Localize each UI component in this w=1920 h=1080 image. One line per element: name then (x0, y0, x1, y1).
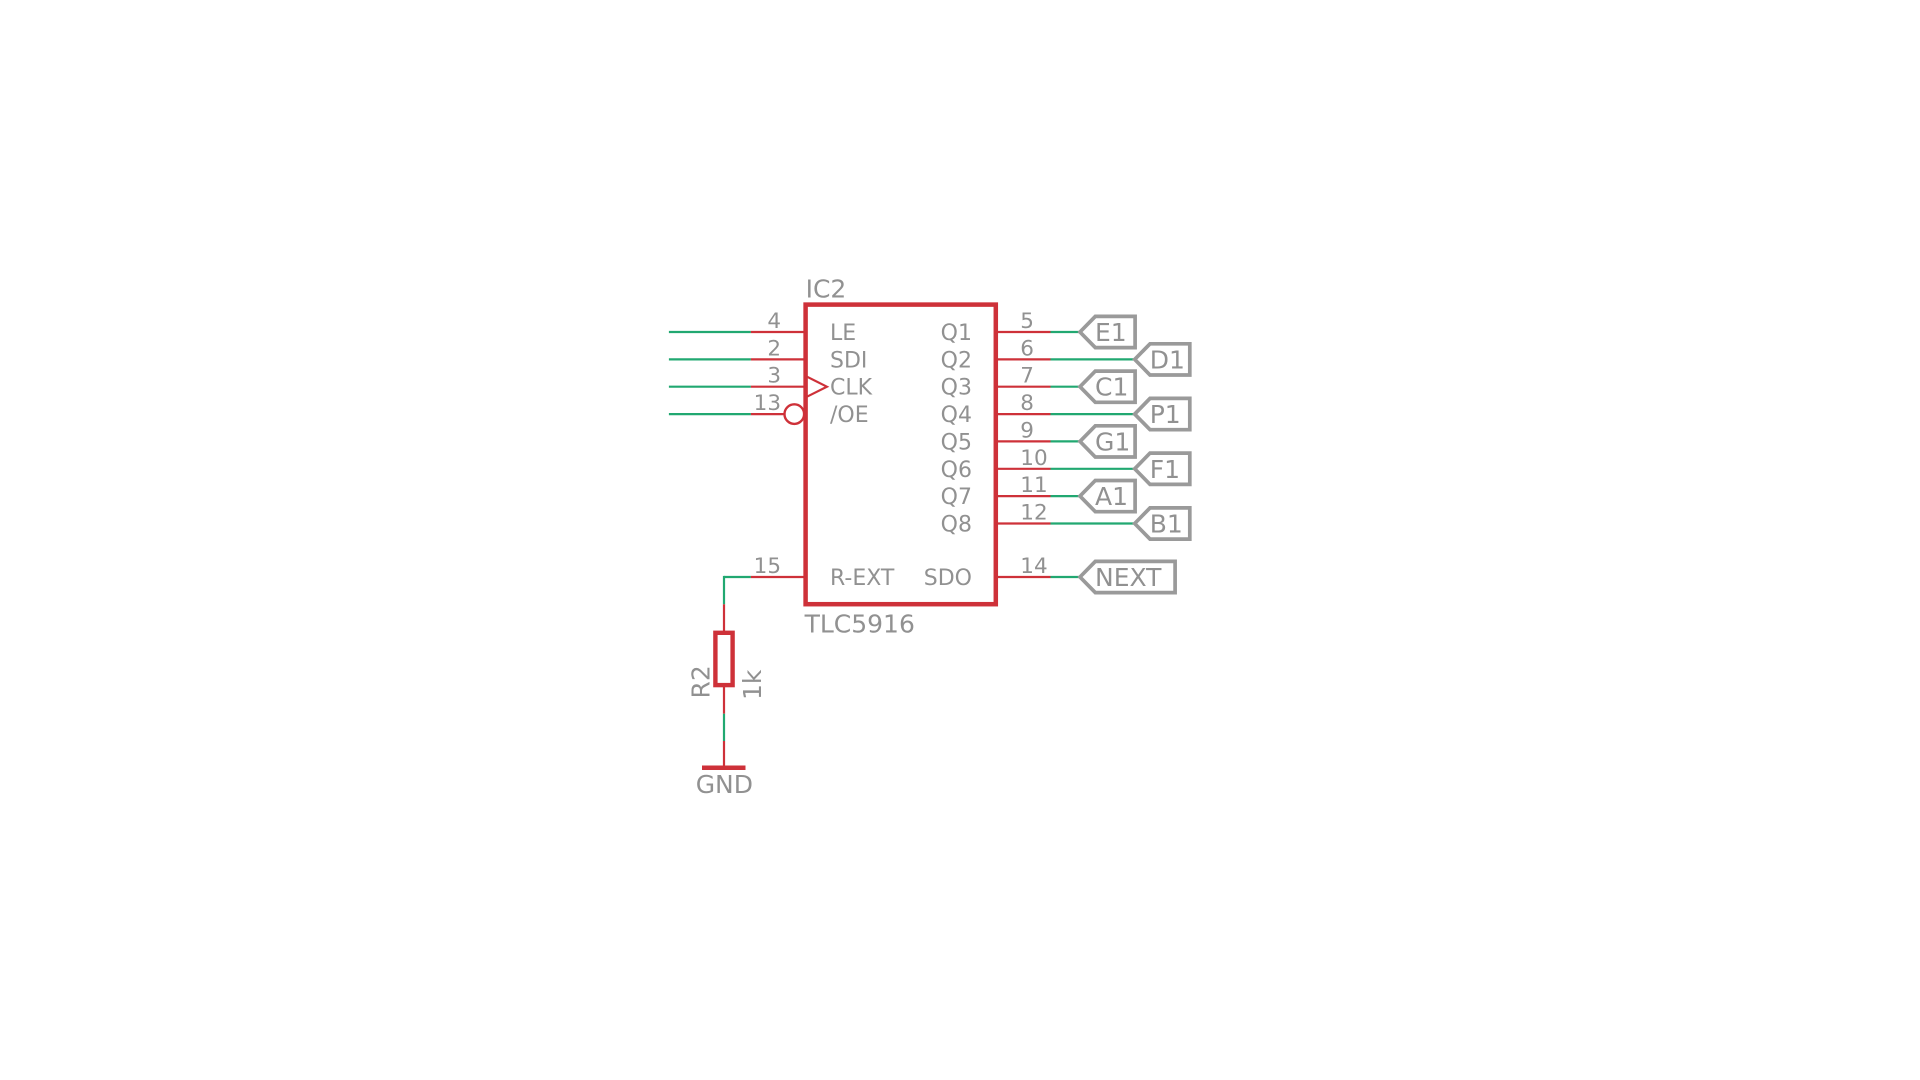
svg-text:LE: LE (830, 321, 856, 346)
svg-text:Q2: Q2 (941, 348, 972, 373)
svg-text:Q3: Q3 (941, 376, 972, 401)
svg-text:1k: 1k (738, 669, 767, 700)
svg-text:B1: B1 (1150, 510, 1183, 539)
svg-text:GND: GND (696, 770, 753, 799)
svg-text:SDO: SDO (924, 566, 972, 591)
svg-text:CLK: CLK (830, 376, 873, 401)
svg-text:12: 12 (1020, 501, 1047, 526)
svg-text:4: 4 (767, 309, 781, 334)
svg-text:TLC5916: TLC5916 (804, 609, 915, 638)
svg-text:Q5: Q5 (941, 430, 972, 455)
svg-text:A1: A1 (1095, 482, 1128, 511)
svg-text:SDI: SDI (830, 348, 867, 373)
svg-text:R-EXT: R-EXT (830, 566, 895, 591)
svg-text:IC2: IC2 (806, 275, 847, 304)
svg-text:11: 11 (1020, 473, 1047, 498)
svg-text:8: 8 (1020, 391, 1034, 416)
svg-text:C1: C1 (1095, 373, 1128, 402)
svg-text:14: 14 (1020, 554, 1047, 579)
svg-text:/OE: /OE (830, 403, 869, 428)
svg-text:Q4: Q4 (941, 403, 972, 428)
svg-text:5: 5 (1020, 309, 1034, 334)
svg-text:Q8: Q8 (941, 513, 972, 538)
svg-text:2: 2 (767, 336, 781, 361)
svg-text:Q7: Q7 (941, 485, 972, 510)
svg-text:NEXT: NEXT (1095, 563, 1162, 592)
svg-text:P1: P1 (1150, 400, 1181, 429)
svg-text:6: 6 (1020, 336, 1034, 361)
svg-text:9: 9 (1020, 418, 1034, 443)
svg-text:E1: E1 (1095, 318, 1127, 347)
svg-text:Q6: Q6 (941, 458, 972, 483)
svg-text:15: 15 (754, 554, 781, 579)
svg-text:R2: R2 (686, 665, 715, 698)
svg-text:Q1: Q1 (941, 321, 972, 346)
svg-text:D1: D1 (1150, 345, 1185, 374)
svg-text:F1: F1 (1150, 455, 1180, 484)
svg-text:10: 10 (1020, 446, 1047, 471)
svg-text:7: 7 (1020, 364, 1034, 389)
svg-text:G1: G1 (1095, 427, 1130, 456)
svg-text:13: 13 (754, 391, 781, 416)
svg-text:3: 3 (767, 364, 781, 389)
